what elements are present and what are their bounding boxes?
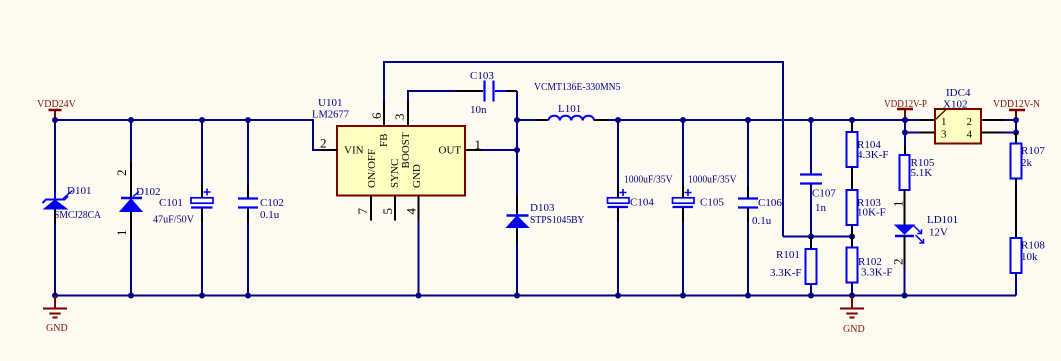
wire D101 branch [54,120,56,191]
wire VDD12V-N node vertical [1015,118,1017,133]
svg-text:C104: C104 [630,197,654,209]
svg-text:ON/OFF: ON/OFF [366,149,378,188]
svg-text:0.1u: 0.1u [752,215,772,227]
wire LED to bottom rail [904,236,906,265]
inductor L101 [534,82,621,121]
svg-text:C101: C101 [159,197,183,209]
svg-text:1000uF/35V: 1000uF/35V [688,174,737,186]
wire U101 GND pin to bottom rail [418,221,420,296]
junction dots bottom rail right [615,293,621,299]
svg-text:FB: FB [378,134,390,147]
wire R103 to FB node [851,225,853,237]
ground symbol right [840,296,865,336]
junction dots top rail left [52,117,58,123]
capacitor C105 electrolytic [673,174,737,209]
svg-text:3.3K-F: 3.3K-F [861,267,892,279]
svg-text:SYNC: SYNC [389,159,401,188]
capacitor C104 electrolytic [608,174,673,209]
svg-text:LM2677: LM2677 [312,109,349,121]
wire X102 pin4 [981,132,1003,134]
wire FB horizontal [783,236,852,238]
wire C107 branch [810,120,812,174]
resistor R107 [1011,133,1046,179]
svg-text:12V: 12V [929,227,948,239]
svg-text:BOOST: BOOST [400,132,412,168]
wire OUT node to L101 [517,119,536,121]
svg-text:VDD12V-N: VDD12V-N [993,99,1040,110]
svg-text:3: 3 [392,114,407,121]
wire C105 branch [682,120,684,185]
resistor R105 [900,147,935,190]
svg-text:D102: D102 [136,186,160,198]
resistor R101 [770,237,817,296]
wire R108 to bottom rail [1015,273,1017,296]
pin 2 VIN stub [322,149,337,151]
svg-text:2k: 2k [1021,157,1033,169]
svg-text:D103: D103 [530,202,555,214]
resistor R104 [847,120,889,167]
svg-text:C107: C107 [812,188,836,200]
pin 6 FB stub [383,101,385,126]
svg-text:2: 2 [320,136,327,151]
wire OUT node vertical [516,91,518,196]
svg-text:IDC4: IDC4 [946,87,971,99]
svg-text:1: 1 [475,137,482,152]
diode D101 TVS [43,185,102,221]
svg-text:1: 1 [891,201,906,208]
svg-text:2: 2 [114,170,129,177]
svg-text:R107: R107 [1021,145,1045,157]
svg-text:R108: R108 [1021,240,1045,252]
diode D103 [507,196,585,228]
svg-text:GND: GND [411,164,423,188]
capacitor C102 [238,197,284,221]
svg-text:C102: C102 [260,197,284,209]
svg-text:L101: L101 [558,103,581,115]
svg-text:1: 1 [941,116,947,128]
op-amp U101 LM2677 body [312,97,465,196]
svg-text:OUT: OUT [439,145,462,157]
svg-text:4: 4 [967,129,973,141]
pin 4 GND stub [418,196,420,221]
svg-text:47uF/50V: 47uF/50V [153,214,194,226]
svg-text:C105: C105 [700,197,724,209]
wire FB top line from pin6 [384,62,783,237]
svg-text:VDD24V: VDD24V [37,99,77,110]
power symbol VDD24V [37,99,77,118]
svg-text:2: 2 [891,259,906,266]
svg-text:VCMT136E-330MN5: VCMT136E-330MN5 [534,82,621,93]
wire VDD12V-P node vertical [904,117,906,147]
svg-text:1n: 1n [815,202,827,214]
svg-text:10k: 10k [1021,251,1038,263]
wire C102 branch [247,120,249,186]
capacitor C106 [738,197,782,227]
wire X102 pin2 [981,119,1003,121]
LED LD101 [895,214,958,243]
svg-text:C103: C103 [470,70,494,82]
pin 3 BOOST stub [407,101,409,126]
svg-text:GND: GND [843,324,865,335]
wire D102 branch [130,120,132,162]
ground symbol left [43,296,68,335]
capacitor C107 [800,175,836,215]
wire R105 to LED [904,190,906,225]
svg-text:6: 6 [369,112,384,119]
capacitor C101 electrolytic [153,189,213,226]
wire C106 branch [747,120,749,186]
wire R107 to R108 [1015,179,1017,239]
svg-text:3.3K-F: 3.3K-F [770,267,801,279]
wire C103 right to OUT node [495,90,506,92]
wire L101 right pin [594,119,608,121]
svg-text:R101: R101 [776,249,800,261]
wire output rail to X102 [608,119,920,121]
svg-text:1: 1 [114,230,129,237]
diode D102 [120,186,160,212]
power symbol VDD12V-N [993,99,1040,118]
wire pin3 to C103 [408,91,456,101]
svg-text:1000uF/35V: 1000uF/35V [624,174,673,186]
pin 1 OUT stub [465,149,483,151]
junction dots bottom rail left [52,293,58,299]
wire X102 pin3 [905,132,920,134]
connector X102 IDC4 [935,87,981,144]
wire C107 to FB node [810,184,812,237]
svg-text:GND: GND [46,323,68,334]
power symbol VDD12V-P [884,99,927,117]
wire R104 to R103 [851,167,853,190]
svg-text:5.1K: 5.1K [911,167,933,179]
svg-text:C106: C106 [758,197,782,209]
svg-text:LD101: LD101 [927,214,958,226]
svg-text:SMCJ28CA: SMCJ28CA [54,209,101,221]
svg-text:7: 7 [355,208,370,215]
wire C101 branch [201,120,203,185]
wire D103 to bottom rail [516,228,518,245]
wire bottom rail [55,295,1016,297]
pin 5 stub [394,196,396,221]
resistor R108 [1011,238,1046,273]
svg-text:4: 4 [404,208,419,215]
svg-text:2: 2 [967,116,973,128]
svg-text:U101: U101 [318,97,342,109]
svg-text:X102: X102 [943,99,967,111]
svg-text:D101: D101 [67,185,91,197]
svg-text:10n: 10n [470,104,487,116]
svg-text:10K-F: 10K-F [857,207,886,219]
capacitor C103 [470,70,494,116]
svg-text:VIN: VIN [344,145,364,157]
wire top rail left segment [55,120,322,150]
pin 7 stub [370,196,372,221]
resistor R102 [847,237,893,296]
junction dots output rail [615,117,621,123]
wire C104 branch [617,120,619,185]
svg-text:0.1u: 0.1u [260,209,280,221]
svg-text:STPS1045BY: STPS1045BY [530,214,585,226]
svg-text:5: 5 [380,208,395,215]
resistor R103 [847,190,886,225]
svg-text:4.3K-F: 4.3K-F [857,149,888,161]
svg-text:3: 3 [941,129,947,141]
